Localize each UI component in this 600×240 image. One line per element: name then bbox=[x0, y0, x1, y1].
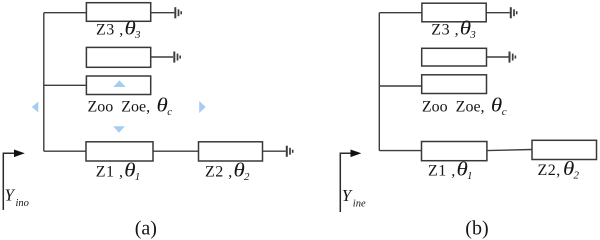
svg-text:Zoo Zoe,: Zoo Zoe, bbox=[88, 99, 151, 116]
selection handle triangle right (a) bbox=[199, 101, 206, 113]
wire coupled stub to ground (a) bbox=[151, 56, 173, 58]
svg-text:Z3 ,: Z3 , bbox=[96, 22, 124, 39]
label Z2 theta2 (a) bbox=[205, 159, 250, 183]
svg-text:2: 2 bbox=[244, 171, 250, 183]
svg-text:1: 1 bbox=[467, 170, 473, 182]
label Z3 theta3 (b) bbox=[431, 17, 476, 41]
wire bus to coupled line (b) bbox=[379, 85, 421, 87]
transmission line Z2 (b) bbox=[532, 140, 597, 159]
wire Z3 to ground (b) bbox=[486, 12, 510, 14]
wire left vertical bus (a) bbox=[43, 13, 45, 152]
wire Z2 to ground (a) bbox=[263, 150, 286, 152]
label Z1 theta1 (a) bbox=[96, 159, 141, 183]
svg-text:Z1 ,: Z1 , bbox=[96, 164, 124, 181]
wire top row to Z3 (b) bbox=[379, 12, 422, 14]
selection handle triangle up (a) bbox=[113, 80, 126, 87]
wire top row to Z3 (a) bbox=[44, 12, 87, 14]
ground at Z3 (b) bbox=[511, 7, 517, 18]
selection handle triangle left (a) bbox=[32, 102, 39, 113]
input arrow Yino (a) bbox=[3, 150, 25, 211]
circuit (b) bbox=[379, 13, 532, 151]
coupled line upper conductor (b) bbox=[422, 48, 487, 66]
wire bus to coupled line (a) bbox=[44, 84, 87, 86]
svg-text:c: c bbox=[502, 106, 507, 118]
circuit (a) bbox=[44, 13, 286, 152]
label Yino (a) bbox=[5, 186, 29, 209]
svg-text:ine: ine bbox=[353, 198, 366, 209]
label Yine (b) bbox=[342, 186, 366, 209]
svg-text:Z2 ,: Z2 , bbox=[205, 164, 233, 181]
wire coupled stub to ground (b) bbox=[487, 56, 509, 58]
transmission line Z1 (b) bbox=[422, 142, 487, 161]
label Z1 theta1 (b) bbox=[428, 158, 473, 182]
ground at Z2 (a) bbox=[287, 146, 293, 157]
svg-text:Y: Y bbox=[5, 186, 16, 205]
svg-text:2: 2 bbox=[574, 169, 580, 181]
selection handle triangle down (a) bbox=[113, 126, 125, 133]
svg-text:(a): (a) bbox=[135, 217, 157, 239]
wire left vertical bus (b) bbox=[378, 13, 380, 151]
ground at coupled stub (b) bbox=[510, 52, 516, 63]
transmission line Z3 (b) bbox=[422, 3, 486, 22]
svg-text:Z1 ,: Z1 , bbox=[428, 162, 456, 179]
svg-text:Z2,: Z2, bbox=[538, 162, 561, 179]
label Z2 theta2 (b) bbox=[538, 157, 580, 181]
svg-text:3: 3 bbox=[469, 29, 476, 41]
label Z3 theta3 (a) bbox=[96, 17, 141, 41]
input arrow Yine (b) bbox=[340, 150, 361, 213]
svg-text:ino: ino bbox=[16, 198, 29, 209]
svg-text:c: c bbox=[167, 106, 172, 118]
svg-text:(b): (b) bbox=[465, 218, 488, 240]
wire Z3 to ground (a) bbox=[151, 12, 175, 14]
svg-text:Z3 ,: Z3 , bbox=[431, 22, 459, 39]
transmission line Z2 (a) bbox=[199, 142, 263, 161]
wire Z1 to Z2 (a) bbox=[153, 150, 199, 152]
transmission line Z3 (a) bbox=[86, 3, 150, 22]
ground at Z3 (a) bbox=[175, 7, 181, 18]
coupled line upper conductor (a) bbox=[86, 47, 150, 67]
label Zoo Zoe thetac (a) bbox=[88, 94, 173, 118]
wire Z1 to Z2 (b) bbox=[487, 150, 532, 151]
svg-text:Y: Y bbox=[342, 186, 353, 205]
svg-text:3: 3 bbox=[134, 29, 141, 41]
coupled line lower conductor (b) bbox=[422, 75, 487, 94]
transmission line Z1 (a) bbox=[86, 142, 153, 161]
wire bus to Z1 (b) bbox=[379, 150, 421, 152]
wire bus to Z1 (a) bbox=[44, 150, 86, 152]
coupled line lower conductor (a) bbox=[86, 76, 150, 95]
svg-text:Zoo Zoe,: Zoo Zoe, bbox=[422, 98, 485, 115]
label Zoo Zoe thetac (b) bbox=[422, 94, 507, 118]
svg-text:1: 1 bbox=[135, 171, 141, 183]
ground at coupled stub (a) bbox=[174, 52, 180, 63]
